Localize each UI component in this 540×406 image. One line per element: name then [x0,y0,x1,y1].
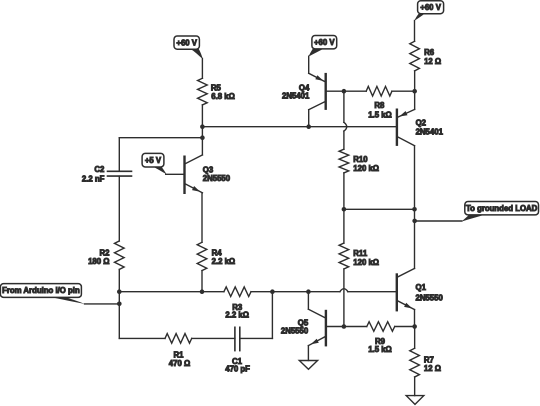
wire R8 right to R6 column [392,90,415,92]
node C1/R1 branch on main rail [270,289,275,294]
power flag +60V (right, feeds R6) [418,1,444,14]
svg-text:6.8 kΩ: 6.8 kΩ [211,92,235,101]
svg-text:12 Ω: 12 Ω [424,364,441,373]
node Q5 base / R9 / R11 [342,324,347,329]
transistor Q4 2N5401 (PNP) [325,74,327,109]
power flag +60V (left, feeds R5) [174,36,199,49]
node Q2 collector / mid rail [412,207,417,212]
wire R6 bottom to Q2 emitter [414,71,416,110]
wire middle column upper (with hop over rail) [343,91,345,122]
wire left column top [118,138,120,172]
resistor R5 6.8k [198,78,208,105]
resistor R7 12 [410,348,420,377]
node output junction [412,219,417,224]
transistor Q2 2N5401 (PNP) [396,110,398,145]
resistor R10 120k [339,149,349,173]
wire Q2 collector down to Q1 collector [414,146,416,269]
main rail left segment [119,291,224,293]
transistor Q3 2N5550 (NPN) [183,157,185,193]
node Q4 collector on upper rail [306,124,311,129]
node Q4 base / R8 / middle column [342,89,347,94]
resistor R9 1.5k [367,322,395,332]
wire R11 bottom to Q5 base node [343,269,345,327]
wire left column C2 to R2 [118,176,120,241]
node input on left column [117,302,122,307]
svg-text:From Arduino I/O pin: From Arduino I/O pin [2,286,80,295]
svg-text:+60 V: +60 V [420,3,441,12]
wire input to node [85,303,120,305]
svg-text:2N5401: 2N5401 [416,128,444,137]
wire node to R9 left [344,326,367,328]
svg-text:2.2 kΩ: 2.2 kΩ [212,257,236,266]
svg-text:470 Ω: 470 Ω [169,359,190,368]
svg-text:+5 V: +5 V [145,156,162,165]
node R5/upper rail [200,124,205,129]
resistor R3 2.2k [224,287,251,297]
transistor Q5 2N5550 (NPN, mirrored) [325,311,327,345]
node C2 rail / Q3 collector [200,135,205,140]
svg-text:2N5401: 2N5401 [282,92,310,101]
svg-text:2N5550: 2N5550 [281,327,309,336]
wire Q3 emitter to R4 [201,193,203,243]
node Q5 collector on main rail [306,289,311,294]
svg-text:2.2 kΩ: 2.2 kΩ [225,311,249,320]
main rail mid segment (R3 right to hop) [251,291,340,293]
svg-text:+60 V: +60 V [314,38,335,47]
node R6 / R8 / Q2 emitter [412,89,417,94]
wire R5 bottom to Q3 collector [201,105,203,155]
bottom loop left wire [119,337,165,339]
svg-text:12 Ω: 12 Ω [424,57,441,66]
resistor R1 470 [165,334,192,344]
transistor Q1 2N5550 (NPN) [396,275,398,311]
mid rail [344,208,415,210]
node middle column / mid rail [342,207,347,212]
wire Q5 collector vertical [307,292,309,310]
wire node to R7 top [414,327,416,349]
bottom loop riser [271,292,273,339]
node left column on main rail [117,289,122,294]
svg-text:1.5 kΩ: 1.5 kΩ [368,111,392,120]
svg-text:180 Ω: 180 Ω [88,257,109,266]
wire R10 bottom to R11 top [343,173,345,243]
resistor R8 1.5k [366,86,392,96]
wire to output flag [415,220,462,222]
wire Q4 base [326,90,344,92]
bottom loop wire R1 to C1 [192,337,235,339]
node Q1 emitter / R9 / R7 [412,324,417,329]
svg-text:120 kΩ: 120 kΩ [353,258,379,267]
wire Q5 base [326,326,344,328]
resistor R4 2.2k [197,242,207,270]
resistor R2 180 [115,241,125,269]
svg-text:1.5 kΩ: 1.5 kΩ [368,345,392,354]
ground (Q5 emitter) [307,346,309,361]
wire R4 bottom [201,271,203,292]
bottom loop wire C1 to riser [240,337,273,339]
wire R9 right to Q1 emitter column [395,326,415,328]
wire left column rail to bottom loop [118,292,120,339]
power flag +60V (middle, feeds Q4 emitter) [312,36,337,49]
upper rail to Q2 base [202,126,397,128]
svg-text:Q1: Q1 [416,283,427,292]
svg-text:R6: R6 [424,48,435,57]
svg-text:R11: R11 [353,249,368,258]
capacitor C2 2.2nF [108,170,132,172]
svg-text:120 kΩ: 120 kΩ [353,164,379,173]
resistor R11 120k [339,243,349,269]
svg-text:Q2: Q2 [416,118,427,127]
wire node to R8 left [344,90,366,92]
wire C2 rail [119,137,202,139]
svg-text:C2: C2 [94,165,105,174]
input flag From Arduino I/O pin [0,284,81,298]
capacitor C1 470pF [234,327,236,350]
power flag +5V (feeds Q3 base) [142,153,164,167]
svg-text:470 pF: 470 pF [225,365,250,374]
svg-text:To grounded LOAD: To grounded LOAD [466,204,538,213]
wire R2 bottom [118,269,120,291]
svg-text:2N5550: 2N5550 [416,293,444,302]
output flag To grounded LOAD [465,202,539,215]
wire Q1 emitter to node [414,310,416,327]
wire Q3 base [166,173,185,175]
svg-text:R8: R8 [374,101,385,110]
svg-text:2.2 nF: 2.2 nF [82,174,105,183]
wire Q4 collector vertical [308,110,310,127]
resistor R6 12 [410,41,420,71]
ground (R7) [414,377,416,396]
node R4 bottom on main rail [200,289,205,294]
svg-text:+60 V: +60 V [176,38,197,47]
svg-text:2N5550: 2N5550 [203,174,231,183]
